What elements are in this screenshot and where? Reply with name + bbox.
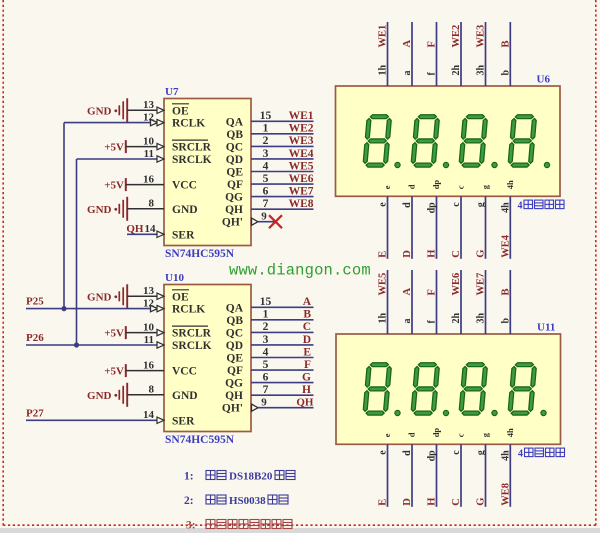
svg-text:E: E (303, 346, 311, 358)
wire U6 top pin a / net A (411, 22, 413, 86)
sheet border right (dashed red) (595, 0, 597, 526)
svg-text:SRCLK: SRCLK (172, 154, 212, 166)
svg-text:SER: SER (172, 229, 195, 241)
wire P25 to U10 pin 12 (26, 308, 164, 310)
svg-text:dp: dp (427, 202, 438, 214)
svg-text:e: e (382, 433, 392, 437)
bus wire SRCLK vertical (U7 pin11 to P26 junction) (76, 159, 78, 345)
wire U11 bottom pin g / net G (485, 444, 487, 507)
svg-text:1h: 1h (378, 313, 389, 324)
wire U6 top pin f / net F (436, 22, 438, 86)
wire U10 QH' to net QH (258, 407, 314, 409)
svg-text:D: D (402, 498, 413, 506)
display U11 body (4-digit 7-segment) (336, 334, 561, 444)
svg-text:QH: QH (225, 204, 243, 216)
digit 4 (U6) (508, 115, 537, 167)
svg-text:7: 7 (263, 384, 269, 396)
wire U6 top pin b / net B (509, 22, 511, 86)
wire U7 QC to net WE3 (251, 145, 314, 147)
svg-text:H: H (302, 384, 311, 396)
svg-text:E: E (378, 251, 389, 258)
svg-text:4: 4 (263, 346, 269, 358)
svg-text:C: C (303, 321, 311, 333)
svg-text:RCLK: RCLK (172, 118, 205, 130)
svg-text:a: a (402, 319, 413, 324)
svg-text:2:: 2: (184, 495, 194, 507)
svg-text:WE1: WE1 (289, 110, 314, 122)
wire GND to U7 pin 8 (127, 208, 164, 210)
svg-text:WE4: WE4 (500, 234, 511, 258)
svg-text:10: 10 (143, 135, 155, 147)
arrowhead U10 pin 13 (157, 293, 164, 299)
wire U10 QG to net G (251, 382, 314, 384)
svg-text:8: 8 (149, 384, 155, 396)
decimal point 1 (U11) (395, 410, 400, 415)
svg-text:14: 14 (145, 223, 157, 235)
decimal point 4 (U11) (541, 410, 546, 415)
wire U11 top pin 1h / net WE5 (387, 270, 389, 334)
output marker U7 QH' (pin 9) (252, 218, 259, 225)
display U6 body (4-digit 7-segment) (336, 86, 561, 196)
svg-text:HS0038: HS0038 (229, 495, 266, 507)
digit 1 (U11) (363, 363, 392, 415)
svg-text:c: c (451, 202, 462, 207)
wire U7 QG to net WE7 (251, 196, 314, 198)
svg-text:e: e (378, 450, 389, 455)
digit 1 (U6) (363, 115, 392, 167)
svg-text:SN74HC595N: SN74HC595N (165, 248, 235, 260)
svg-text:www.diangon.com: www.diangon.com (229, 262, 371, 280)
svg-text:U11: U11 (537, 322, 555, 334)
wire U7 QH' stub (258, 221, 275, 223)
svg-text:3: 3 (263, 148, 269, 160)
svg-text:RCLK: RCLK (172, 304, 205, 316)
wire U6 top pin 2h / net WE2 (460, 22, 462, 86)
svg-text:QB: QB (226, 315, 243, 327)
svg-text:2: 2 (263, 135, 269, 147)
wire P27 to U10 pin 14 (26, 419, 164, 421)
svg-text:QH: QH (126, 223, 144, 235)
svg-text:+5V: +5V (104, 142, 124, 154)
svg-text:G: G (476, 498, 487, 506)
svg-text:4h: 4h (505, 428, 515, 437)
IC U7 SN74HC595N body (164, 99, 251, 246)
wire U6 bottom pin d / net D (411, 196, 413, 258)
wire U7 QA to net WE1 (251, 120, 314, 122)
digit 4 (U11) (508, 363, 537, 415)
arrowhead U10 pin 12 (clock) (151, 305, 158, 311)
svg-text:b: b (500, 70, 511, 76)
svg-text:WE3: WE3 (289, 135, 314, 147)
svg-text:13: 13 (143, 99, 155, 111)
svg-text:SRCLK: SRCLK (172, 340, 212, 352)
svg-text:QF: QF (227, 179, 243, 191)
svg-text:WE6: WE6 (289, 173, 314, 185)
svg-text:QD: QD (226, 340, 243, 352)
bottom grey strip (0, 528, 600, 533)
svg-text:4: 4 (518, 449, 523, 460)
svg-text:A: A (402, 40, 413, 48)
wire U10 QD to net D (251, 344, 314, 346)
svg-text:2h: 2h (451, 313, 462, 324)
svg-text:+5V: +5V (104, 366, 124, 378)
svg-text:OE: OE (172, 291, 189, 303)
svg-text:4h: 4h (500, 450, 511, 461)
svg-text:3: 3 (263, 334, 269, 346)
no-connect X on U7 QH' (269, 215, 282, 228)
wire U7 QD to net WE4 (251, 158, 314, 160)
svg-text:1h: 1h (378, 65, 389, 76)
svg-text:QH: QH (225, 390, 243, 402)
svg-text:C: C (451, 250, 462, 258)
svg-text:13: 13 (143, 285, 155, 297)
svg-text:QC: QC (226, 141, 243, 153)
svg-text:SN74HC595N: SN74HC595N (165, 434, 235, 446)
wire U11 top pin a / net A (411, 270, 413, 334)
svg-text:c: c (456, 433, 466, 437)
svg-text:QB: QB (226, 129, 243, 141)
svg-text:QG: QG (225, 192, 243, 204)
svg-text:GND: GND (87, 204, 112, 216)
wire U7 QH to net WE8 (251, 208, 314, 210)
svg-text:GND: GND (172, 390, 198, 402)
wire P26 to U10 pin 11 (26, 344, 164, 346)
wire U6 bottom pin e / net E (387, 196, 389, 258)
svg-text:U7: U7 (165, 86, 179, 98)
svg-text:WE5: WE5 (289, 160, 314, 172)
arrowhead U7 pin 14 (157, 231, 164, 237)
svg-text:P26: P26 (26, 332, 44, 344)
wire +5V to U10 pin 10 (126, 332, 164, 334)
wire U10 QB to net B (251, 319, 314, 321)
wire U11 top pin b / net B (509, 270, 511, 334)
digit 3 (U11) (459, 363, 488, 415)
svg-text:9: 9 (261, 211, 267, 223)
arrowhead U7 pin 10 (157, 143, 164, 149)
sheet border left (dashed red) (2, 0, 4, 526)
svg-text:dp: dp (427, 450, 438, 462)
svg-text:QE: QE (226, 167, 243, 179)
wire U6 bottom pin c / net C (460, 196, 462, 258)
wire U10 QE to net E (251, 357, 314, 359)
svg-text:8: 8 (149, 198, 155, 210)
svg-text:G: G (302, 371, 311, 383)
svg-text:16: 16 (143, 173, 155, 185)
decimal point 3 (U6) (492, 162, 497, 167)
svg-text:C: C (451, 498, 462, 506)
svg-text:1: 1 (263, 123, 269, 135)
svg-text:WE2: WE2 (451, 25, 462, 48)
junction P26/SRCLK bus (74, 342, 79, 347)
svg-text:A: A (303, 296, 312, 308)
svg-text:F: F (427, 289, 438, 295)
svg-text:dp: dp (431, 180, 441, 190)
svg-text:A: A (402, 288, 413, 296)
svg-text:B: B (303, 309, 311, 321)
svg-text:WE3: WE3 (476, 25, 487, 48)
svg-text:F: F (427, 41, 438, 47)
bus wire RCLK vertical (U7 pin12 to P25 junction) (63, 123, 65, 309)
svg-text:d: d (407, 184, 417, 189)
arrowhead U7 pin 12 (clock) (151, 119, 158, 125)
wire U11 bottom pin d / net D (411, 444, 413, 507)
svg-text:4: 4 (518, 201, 523, 212)
svg-text:c: c (451, 450, 462, 455)
svg-text:dp: dp (431, 428, 441, 438)
svg-text:SER: SER (172, 415, 195, 427)
digit 3 (U6) (459, 115, 488, 167)
wire U7 QE to net WE5 (251, 171, 314, 173)
svg-text:WE6: WE6 (451, 273, 462, 296)
wire RCLK bus to U7 pin 12 (64, 122, 164, 124)
svg-text:B: B (500, 288, 511, 295)
svg-text:e: e (378, 202, 389, 207)
svg-text:QH: QH (296, 397, 314, 409)
arrowhead U10 pin 10 (157, 329, 164, 335)
svg-text:P25: P25 (26, 296, 44, 308)
svg-text:QH': QH' (222, 217, 243, 229)
svg-text:B: B (500, 40, 511, 47)
svg-text:QE: QE (226, 353, 243, 365)
svg-text:WE7: WE7 (476, 273, 487, 296)
svg-text:16: 16 (143, 359, 155, 371)
wire U6 bottom pin dp / net H (436, 196, 438, 258)
svg-text:WE2: WE2 (289, 123, 314, 135)
svg-text:H: H (427, 250, 438, 258)
svg-text:DS18B20: DS18B20 (229, 471, 273, 483)
svg-text:c: c (456, 185, 466, 189)
wire U10 QC to net C (251, 331, 314, 333)
svg-text:5: 5 (263, 359, 269, 371)
wire U10 QA to net A (251, 306, 314, 308)
IC U10 SN74HC595N body (164, 285, 251, 432)
wire U10 QF to net F (251, 369, 314, 371)
svg-text:3h: 3h (476, 313, 487, 324)
svg-text:d: d (407, 432, 417, 437)
wire SRCLK bus to U7 pin 11 (77, 158, 165, 160)
decimal point 4 (U6) (544, 162, 549, 167)
svg-text:g: g (476, 450, 487, 455)
junction P25/RCLK bus (61, 306, 66, 311)
svg-text:b: b (500, 318, 511, 324)
svg-text:+5V: +5V (104, 180, 124, 192)
svg-text:15: 15 (260, 296, 272, 308)
svg-text:U10: U10 (165, 272, 184, 284)
arrowhead U7 pin 13 (157, 107, 164, 113)
svg-text:G: G (476, 250, 487, 258)
svg-text:3:: 3: (186, 520, 196, 532)
svg-text:2: 2 (263, 321, 269, 333)
svg-text:VCC: VCC (172, 180, 197, 192)
svg-text:14: 14 (143, 409, 155, 421)
wire U6 top pin 3h / net WE3 (485, 22, 487, 86)
digit 2 (U11) (411, 363, 440, 415)
svg-text:QA: QA (226, 302, 244, 314)
svg-text:SRCLR: SRCLR (172, 142, 212, 154)
wire +5V to U10 pin 16 (126, 370, 164, 372)
svg-text:4: 4 (263, 160, 269, 172)
svg-text:WE7: WE7 (289, 185, 314, 197)
svg-text:10: 10 (143, 321, 155, 333)
svg-text:+5V: +5V (104, 328, 124, 340)
svg-text:QH': QH' (222, 403, 243, 415)
svg-text:5: 5 (263, 173, 269, 185)
svg-text:9: 9 (261, 397, 267, 409)
decimal point 3 (U11) (492, 410, 497, 415)
svg-text:OE: OE (172, 105, 189, 117)
svg-text:U6: U6 (537, 74, 551, 86)
svg-text:11: 11 (144, 148, 154, 160)
svg-text:H: H (427, 498, 438, 506)
wire U7 QF to net WE6 (251, 183, 314, 185)
wire QH to U7 pin 14 (127, 233, 164, 235)
wire GND to U10 pin 13 (127, 295, 164, 297)
svg-text:3h: 3h (476, 65, 487, 76)
sheet border bottom (dashed red) (3, 524, 596, 526)
decimal point 2 (U6) (443, 162, 448, 167)
svg-text:a: a (402, 71, 413, 76)
wire U11 bottom pin c / net C (460, 444, 462, 507)
svg-text:E: E (378, 499, 389, 506)
svg-text:GND: GND (172, 204, 198, 216)
svg-text:15: 15 (260, 110, 272, 122)
svg-text:g: g (476, 202, 487, 207)
svg-text:4h: 4h (505, 180, 515, 189)
svg-text:GND: GND (87, 390, 112, 402)
svg-text:WE1: WE1 (378, 25, 389, 48)
wire U6 bottom pin 4h / net WE4 (509, 196, 511, 258)
wire U6 top pin 1h / net WE1 (387, 22, 389, 86)
decimal point 2 (U11) (443, 410, 448, 415)
svg-text:e: e (382, 185, 392, 189)
svg-text:WE8: WE8 (289, 198, 314, 210)
wire U11 top pin 3h / net WE7 (485, 270, 487, 334)
decimal point 1 (U6) (395, 162, 400, 167)
wire U11 bottom pin e / net E (387, 444, 389, 507)
svg-text:1:: 1: (184, 471, 194, 483)
arrowhead U10 pin 11 (157, 342, 164, 348)
arrowhead U7 pin 11 (157, 156, 164, 162)
svg-text:WE8: WE8 (500, 483, 511, 506)
wire GND to U7 pin 13 (127, 109, 164, 111)
digit 2 (U6) (411, 115, 440, 167)
svg-text:GND: GND (87, 105, 112, 117)
wire U11 bottom pin 4h / net WE8 (509, 444, 511, 507)
svg-text:6: 6 (263, 185, 269, 197)
svg-text:QF: QF (227, 365, 243, 377)
wire +5V to U7 pin 10 (126, 146, 164, 148)
svg-text:SRCLR: SRCLR (172, 328, 212, 340)
arrowhead U10 pin 14 (157, 417, 164, 423)
svg-text:VCC: VCC (172, 366, 197, 378)
wire U11 top pin f / net F (436, 270, 438, 334)
wire U11 top pin 2h / net WE6 (460, 270, 462, 334)
svg-text:D: D (303, 334, 311, 346)
svg-text:F: F (304, 359, 311, 371)
wire U6 bottom pin g / net G (485, 196, 487, 258)
wire +5V to U7 pin 16 (126, 184, 164, 186)
svg-text:QC: QC (226, 327, 243, 339)
svg-text:d: d (402, 202, 413, 208)
svg-text:6: 6 (263, 371, 269, 383)
wire U11 bottom pin dp / net H (436, 444, 438, 507)
svg-text:11: 11 (144, 334, 154, 346)
svg-text:7: 7 (263, 198, 269, 210)
wire U7 QB to net WE2 (251, 133, 314, 135)
svg-text:2h: 2h (451, 65, 462, 76)
svg-text:GND: GND (87, 291, 112, 303)
svg-text:QA: QA (226, 116, 244, 128)
wire U10 QH to net H (251, 394, 314, 396)
svg-text:P27: P27 (26, 407, 44, 419)
svg-text:WE5: WE5 (378, 273, 389, 296)
output marker U10 QH' (pin 9) (252, 404, 259, 411)
svg-text:1: 1 (263, 309, 269, 321)
svg-text:d: d (402, 450, 413, 456)
wire GND to U10 pin 8 (127, 394, 164, 396)
svg-text:WE4: WE4 (289, 148, 314, 160)
svg-text:4h: 4h (500, 202, 511, 213)
svg-text:D: D (402, 250, 413, 258)
svg-text:QG: QG (225, 378, 243, 390)
svg-text:QD: QD (226, 154, 243, 166)
